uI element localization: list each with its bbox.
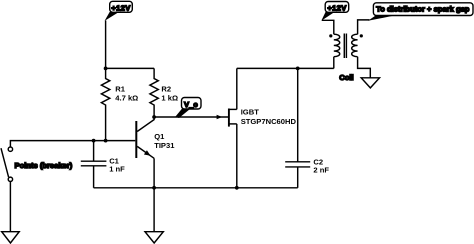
switch: points (breaker): [1, 147, 13, 182]
phase dot secondary: [360, 34, 363, 37]
R2 value label "R2 1 kOhm": [161, 84, 178, 102]
wire: switch bottom to ground: [9, 182, 11, 232]
junction dot node V_c (R2 / Q1 collector / gate wire): [152, 115, 156, 119]
power +12V supply callout (right): [321, 2, 348, 21]
wire: top rail right (collector to coil primary): [237, 67, 334, 69]
wire: coil secondary top to distributor: [358, 20, 370, 34]
wire: ground stub below emitter: [153, 188, 155, 232]
svg-text:+12V: +12V: [111, 3, 131, 12]
C2 value label "C2 2 nF": [313, 158, 329, 175]
svg-text:Coil: Coil: [339, 73, 353, 82]
capacitor C2: [285, 68, 310, 187]
transistor Q1 (NPN TIP31): [136, 117, 154, 158]
ground (switch): [2, 232, 20, 243]
wire: points breaker to Q1 base: [10, 141, 135, 147]
IGBT U1 STGP7NC60HD: [229, 109, 237, 127]
junction dot R1 bottom / base wire: [104, 139, 108, 143]
phase dot primary: [329, 34, 332, 37]
resistor R1: [101, 68, 109, 140]
svg-text:STGP7NC60HD: STGP7NC60HD: [241, 117, 297, 126]
svg-text:Points (breaker): Points (breaker): [15, 161, 73, 170]
svg-text:+12V: +12V: [327, 3, 347, 12]
capacitor C1: [81, 141, 107, 188]
wire: IGBT collector up to top rail right: [236, 68, 238, 109]
wire: bottom ground rail: [94, 187, 298, 189]
C1 value label "C1 1 nF": [109, 156, 125, 173]
svg-text:TIP31: TIP31: [154, 141, 175, 150]
wire: IGBT emitter down to ground rail: [236, 124, 238, 188]
Q1 label "Q1 TIP31": [154, 132, 175, 150]
transformer T1 coil primary winding: [334, 34, 340, 56]
ground (coil secondary): [361, 78, 379, 88]
wire: +12V down to top rail: [105, 21, 107, 69]
junction dot C1 top: [92, 139, 96, 143]
wire: +12V to coil primary top: [322, 20, 334, 34]
wire: top rail left (R1/R2 supply rail): [106, 67, 155, 69]
ground (main): [145, 232, 163, 243]
resistor R2: [150, 68, 158, 117]
svg-text:IGBT: IGBT: [241, 107, 260, 116]
svg-text:Q1: Q1: [154, 132, 165, 141]
transformer core: [344, 34, 346, 59]
IGBT label "IGBT STGP7NC60HD": [241, 107, 297, 126]
svg-text:R2: R2: [161, 84, 171, 93]
svg-text:2 nF: 2 nF: [313, 165, 329, 174]
wire: coil primary bottom to top rail: [333, 57, 335, 69]
svg-text:1 kΩ: 1 kΩ: [161, 94, 178, 103]
node label callout V_c: [175, 98, 201, 119]
wire: coil secondary bottom to ground: [358, 57, 371, 78]
output callout "To distributor + spark gap": [368, 3, 473, 21]
wire: collector node to IGBT gate with arrow: [154, 116, 228, 118]
junction dot IGBT emitter / ground rail: [235, 186, 239, 190]
svg-text:1 nF: 1 nF: [109, 164, 125, 173]
junction dot C2 top: [296, 67, 300, 71]
junction dot emitter / ground: [152, 186, 156, 190]
svg-text:V_c: V_c: [184, 100, 198, 109]
transformer T1 coil secondary winding: [352, 34, 358, 56]
junction dot at +12V rail / R1: [104, 67, 108, 71]
wire: Q1 emitter down to ground rail: [153, 158, 155, 188]
power +12V supply callout (left): [105, 1, 133, 21]
R1 value label "R1 4.7 kOhm": [115, 84, 138, 102]
svg-text:4.7 kΩ: 4.7 kΩ: [115, 94, 138, 103]
svg-text:To distributor + spark gap: To distributor + spark gap: [376, 5, 470, 14]
svg-text:R1: R1: [115, 84, 125, 93]
